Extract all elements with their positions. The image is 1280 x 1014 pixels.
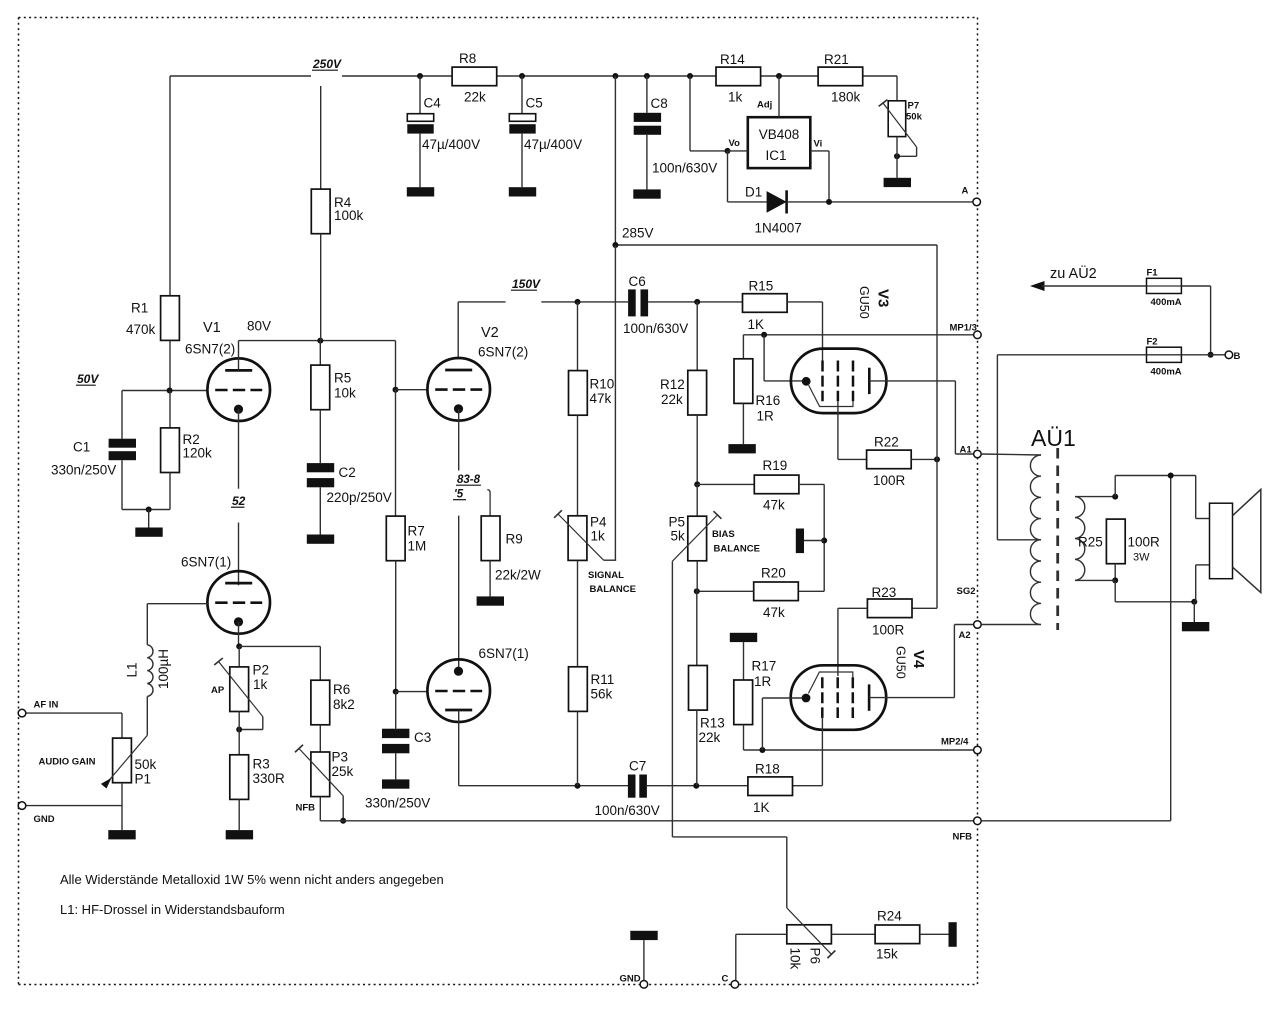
svg-text:R16: R16	[756, 393, 781, 408]
svg-text:R10: R10	[590, 377, 615, 392]
svg-text:AF IN: AF IN	[34, 700, 59, 711]
svg-text:10k: 10k	[788, 948, 803, 970]
svg-text:83-8: 83-8	[457, 474, 481, 486]
svg-text:R8: R8	[459, 51, 476, 66]
svg-text:GND: GND	[620, 974, 641, 985]
svg-text:GU50: GU50	[894, 646, 908, 679]
svg-text:47k: 47k	[590, 391, 612, 406]
svg-text:R12: R12	[660, 377, 685, 392]
svg-text:25k: 25k	[332, 764, 354, 779]
svg-text:1N4007: 1N4007	[755, 221, 802, 236]
svg-text:F2: F2	[1147, 337, 1158, 348]
svg-text:100k: 100k	[334, 208, 364, 223]
svg-text:Vi: Vi	[814, 139, 823, 150]
svg-text:V1: V1	[203, 320, 221, 336]
svg-text:47k: 47k	[763, 498, 785, 513]
svg-text:22k/2W: 22k/2W	[495, 568, 541, 583]
svg-text:R9: R9	[506, 532, 523, 547]
svg-text:C: C	[722, 974, 729, 985]
svg-text:NFB: NFB	[953, 832, 973, 843]
svg-text:100R: 100R	[873, 473, 906, 488]
svg-text:50V: 50V	[77, 372, 99, 386]
svg-text:GND: GND	[34, 814, 55, 825]
svg-text:R17: R17	[752, 659, 777, 674]
svg-text:R23: R23	[872, 585, 897, 600]
svg-text:AUDIO GAIN: AUDIO GAIN	[39, 757, 96, 768]
svg-text:1K: 1K	[753, 800, 770, 815]
svg-text:80V: 80V	[247, 319, 271, 334]
svg-text:330n/250V: 330n/250V	[51, 463, 116, 478]
svg-text:AP: AP	[211, 685, 225, 696]
svg-text:330n/250V: 330n/250V	[365, 796, 430, 811]
svg-text:BALANCE: BALANCE	[590, 584, 636, 595]
svg-text:SG2: SG2	[957, 586, 976, 597]
svg-text:100R: 100R	[872, 623, 905, 638]
svg-text:1R: 1R	[757, 409, 775, 424]
svg-text:1k: 1k	[253, 677, 268, 692]
svg-text:120k: 120k	[183, 446, 213, 461]
svg-text:V2: V2	[481, 325, 499, 341]
svg-text:1k: 1k	[728, 90, 743, 105]
svg-text:47k: 47k	[763, 605, 785, 620]
svg-text:6SN7(1): 6SN7(1)	[479, 646, 529, 661]
svg-text:R11: R11	[591, 672, 615, 687]
svg-text:BALANCE: BALANCE	[714, 544, 760, 555]
svg-text:C3: C3	[414, 730, 431, 745]
svg-text:C4: C4	[424, 96, 442, 111]
svg-text:330R: 330R	[253, 771, 286, 786]
svg-text:180k: 180k	[831, 90, 861, 105]
svg-text:5k: 5k	[671, 529, 686, 544]
svg-text:R21: R21	[824, 52, 849, 67]
svg-text:50k: 50k	[135, 757, 157, 772]
svg-text:6SN7(2): 6SN7(2)	[185, 342, 235, 357]
svg-text:R15: R15	[749, 279, 774, 294]
svg-text:C7: C7	[629, 759, 646, 774]
svg-text:Alle Widerstände Metalloxid 1W: Alle Widerstände Metalloxid 1W 5% wenn n…	[60, 872, 444, 887]
svg-text:15k: 15k	[876, 947, 898, 962]
svg-text:400mA: 400mA	[1151, 367, 1182, 378]
svg-text:3W: 3W	[1133, 552, 1150, 564]
svg-text:R13: R13	[700, 716, 725, 731]
svg-text:R20: R20	[761, 566, 786, 581]
svg-text:Adj: Adj	[757, 100, 772, 111]
svg-text:22k: 22k	[699, 730, 721, 745]
svg-text:V4: V4	[910, 650, 927, 669]
svg-text:R14: R14	[720, 52, 745, 67]
svg-text:GU50: GU50	[857, 286, 871, 319]
svg-text:SIGNAL: SIGNAL	[588, 570, 624, 581]
svg-text:22k: 22k	[661, 392, 683, 407]
svg-text:F1: F1	[1147, 268, 1159, 279]
svg-text:P6: P6	[808, 948, 823, 965]
svg-text:C6: C6	[629, 274, 646, 289]
svg-text:400mA: 400mA	[1151, 297, 1182, 308]
svg-text:220p/250V: 220p/250V	[327, 490, 392, 505]
svg-text:R1: R1	[131, 301, 148, 316]
svg-text:'5: '5	[454, 489, 464, 501]
svg-text:NFB: NFB	[296, 803, 316, 814]
svg-text:P1: P1	[135, 772, 152, 787]
svg-text:B: B	[1234, 351, 1241, 362]
svg-text:L1: L1	[125, 662, 140, 677]
svg-text:P7: P7	[908, 101, 920, 112]
svg-text:C5: C5	[526, 96, 543, 111]
svg-text:P3: P3	[332, 750, 349, 765]
svg-text:A1: A1	[960, 445, 973, 456]
svg-text:470k: 470k	[126, 322, 156, 337]
svg-text:C1: C1	[73, 440, 90, 455]
svg-text:100µH: 100µH	[156, 649, 171, 689]
svg-text:A2: A2	[959, 630, 971, 641]
svg-text:100n/630V: 100n/630V	[595, 803, 660, 818]
svg-text:100n/630V: 100n/630V	[652, 161, 717, 176]
svg-text:AÜ1: AÜ1	[1031, 425, 1076, 451]
svg-text:C8: C8	[651, 96, 668, 111]
svg-text:R7: R7	[408, 524, 425, 539]
svg-text:47µ/400V: 47µ/400V	[422, 137, 480, 152]
svg-text:150V: 150V	[512, 277, 541, 291]
svg-text:1R: 1R	[754, 674, 772, 689]
svg-text:100R: 100R	[1128, 535, 1161, 550]
svg-text:6SN7(1): 6SN7(1)	[181, 555, 231, 570]
svg-text:1K: 1K	[748, 317, 765, 332]
svg-text:47µ/400V: 47µ/400V	[524, 137, 582, 152]
svg-text:R18: R18	[755, 762, 780, 777]
svg-text:10k: 10k	[334, 386, 356, 401]
svg-text:1M: 1M	[408, 539, 427, 554]
svg-text:R5: R5	[334, 371, 351, 386]
svg-text:R24: R24	[877, 909, 902, 924]
svg-text:D1: D1	[745, 185, 762, 200]
svg-text:R22: R22	[874, 435, 899, 450]
svg-text:R19: R19	[763, 458, 788, 473]
svg-text:6SN7(2): 6SN7(2)	[478, 345, 528, 360]
svg-text:C2: C2	[339, 465, 356, 480]
svg-text:250V: 250V	[312, 57, 342, 71]
svg-text:R6: R6	[333, 682, 350, 697]
svg-text:zu AÜ2: zu AÜ2	[1050, 264, 1097, 282]
svg-text:A: A	[962, 186, 969, 197]
svg-text:285V: 285V	[622, 226, 654, 241]
svg-text:V3: V3	[875, 289, 892, 307]
svg-text:P4: P4	[590, 515, 607, 530]
svg-text:50k: 50k	[906, 112, 923, 123]
svg-text:R3: R3	[253, 757, 270, 772]
svg-text:MP2/4: MP2/4	[941, 737, 969, 748]
svg-text:100n/630V: 100n/630V	[623, 321, 688, 336]
svg-text:L1: HF-Drossel in Widerstandsb: L1: HF-Drossel in Widerstandsbauform	[60, 902, 285, 917]
svg-text:56k: 56k	[591, 687, 613, 702]
svg-text:22k: 22k	[464, 90, 486, 105]
svg-text:P2: P2	[253, 663, 270, 678]
svg-text:BIAS: BIAS	[712, 529, 735, 540]
svg-text:R25: R25	[1078, 535, 1103, 550]
svg-text:52: 52	[232, 494, 246, 508]
svg-text:VB408: VB408	[759, 127, 800, 142]
svg-text:1k: 1k	[591, 529, 606, 544]
svg-text:8k2: 8k2	[333, 697, 355, 712]
svg-text:IC1: IC1	[765, 148, 786, 163]
svg-text:P5: P5	[669, 515, 686, 530]
svg-text:MP1/3: MP1/3	[950, 323, 977, 334]
svg-text:Vo: Vo	[729, 138, 741, 149]
